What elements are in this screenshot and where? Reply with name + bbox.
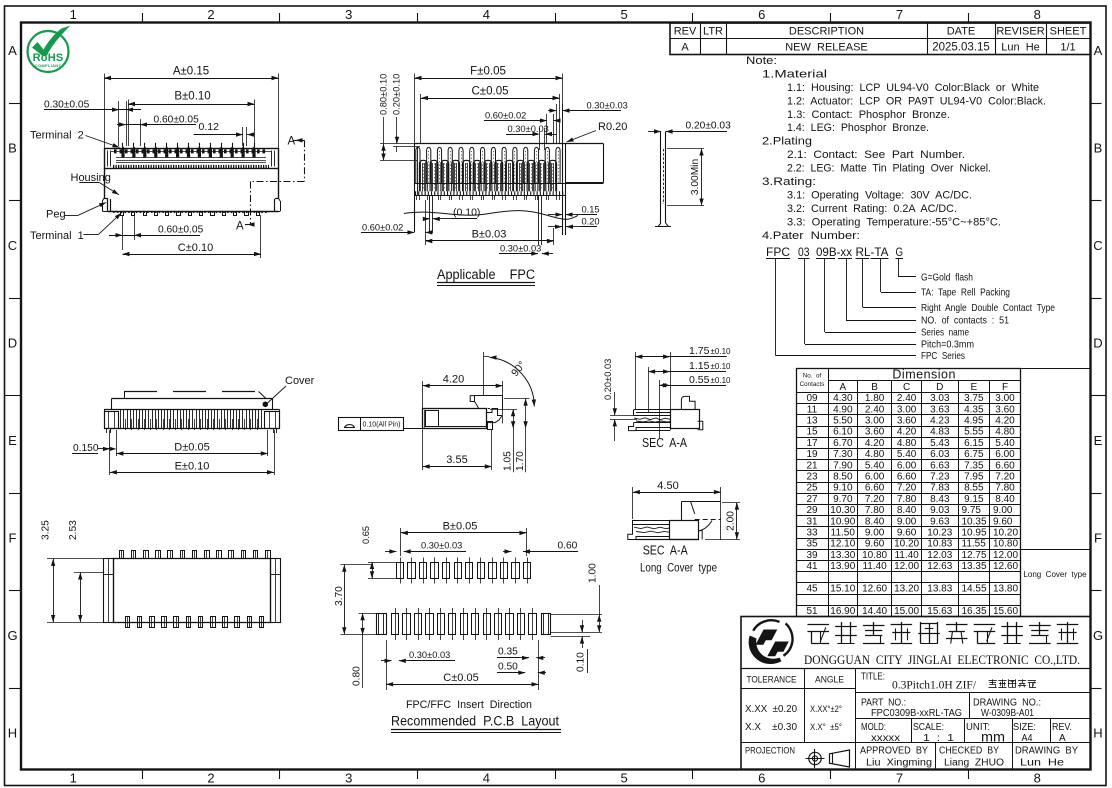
svg-text:3.55: 3.55: [446, 454, 467, 466]
svg-text:B±0.05: B±0.05: [443, 521, 478, 533]
svg-text:2.53: 2.53: [68, 520, 79, 540]
svg-text:D: D: [1093, 336, 1102, 351]
svg-text:9.60: 9.60: [993, 516, 1013, 527]
svg-text:15: 15: [806, 427, 818, 438]
svg-text:B: B: [8, 141, 17, 156]
svg-text:LTR: LTR: [703, 26, 723, 38]
svg-text:2: 2: [207, 7, 214, 22]
svg-text:Long Cover type: Long Cover type: [640, 561, 717, 575]
svg-text:10.80: 10.80: [993, 539, 1018, 550]
svg-text:12.63: 12.63: [927, 561, 952, 572]
svg-text:0.60±0.02: 0.60±0.02: [362, 222, 403, 232]
dimension 0.65: [361, 526, 398, 579]
svg-text:6: 6: [758, 7, 765, 22]
svg-text:16.90: 16.90: [830, 606, 855, 617]
svg-text:3.00: 3.00: [865, 416, 885, 427]
svg-text:0.50: 0.50: [498, 661, 518, 672]
svg-text:1.2: Actuator: LCP OR PA9T: 1.2: Actuator: LCP OR PA9T UL94-V0 Color…: [787, 95, 1046, 107]
svg-text:10.90: 10.90: [830, 516, 855, 527]
svg-text:SEC A-A: SEC A-A: [643, 543, 688, 558]
svg-text:A: A: [1094, 43, 1103, 58]
label Peg: [46, 202, 106, 220]
view 2 FPC body: [415, 144, 604, 236]
svg-text:REV: REV: [674, 26, 697, 38]
svg-text:21: 21: [806, 460, 818, 471]
svg-text:G: G: [7, 628, 17, 643]
svg-text:9.63: 9.63: [930, 516, 950, 527]
svg-text:Liang ZHUO: Liang ZHUO: [944, 758, 1004, 769]
svg-text:0.60: 0.60: [558, 540, 578, 551]
svg-text:10.95: 10.95: [962, 528, 987, 539]
svg-text:6.00: 6.00: [995, 449, 1015, 460]
dimension 0.60 pcb: [503, 540, 578, 553]
svg-text:1.Material: 1.Material: [762, 69, 827, 81]
section line A-A view 1: [236, 136, 305, 233]
svg-text:B: B: [871, 382, 878, 393]
svg-text:4.80: 4.80: [897, 438, 917, 449]
dimension 1.75 plus minus 0.10: [635, 345, 731, 430]
dimension 0.10 paren: [423, 207, 481, 222]
pcb layout lower pad row: [377, 608, 551, 640]
company name chinese: [807, 622, 1078, 644]
svg-text:W-0309B-A01: W-0309B-A01: [981, 708, 1034, 719]
svg-text:RL-TA: RL-TA: [856, 247, 889, 259]
svg-text:6.75: 6.75: [964, 449, 984, 460]
svg-text:0.60±0.05: 0.60±0.05: [154, 114, 200, 125]
view 3 cover dashed outline: [112, 392, 273, 410]
svg-text:0.15: 0.15: [582, 204, 600, 214]
dimension 2.53: [68, 520, 104, 622]
svg-text:B±0.03: B±0.03: [472, 229, 507, 241]
dimension D plus minus 0.05: [116, 430, 267, 456]
dimension 0.50: [497, 661, 546, 675]
svg-text:8.40: 8.40: [995, 494, 1015, 505]
svg-text:A: A: [236, 221, 244, 233]
view 4 actuator lever: [470, 396, 503, 409]
svg-text:DONGGUAN CITY JINGLAI ELECT: DONGGUAN CITY JINGLAI ELECTRONIC CO.,LTD…: [804, 653, 1080, 667]
svg-text:8.40: 8.40: [865, 516, 885, 527]
svg-text:09B-xx: 09B-xx: [816, 247, 852, 259]
title block outline: [741, 617, 1091, 770]
svg-text:51: 51: [806, 606, 818, 617]
zone row ticks left/right: [9, 103, 21, 105]
svg-text:1: 1: [70, 771, 77, 786]
svg-text:7.20: 7.20: [995, 472, 1015, 483]
label Recommended PCB Layout: [391, 714, 561, 733]
svg-text:C±0.05: C±0.05: [443, 672, 478, 684]
svg-text:A: A: [1059, 733, 1066, 744]
svg-text:8: 8: [1034, 7, 1041, 22]
svg-text:5.40: 5.40: [865, 460, 885, 471]
svg-text:6.00: 6.00: [897, 460, 917, 471]
svg-text:2.00: 2.00: [726, 511, 737, 531]
svg-text:4.35: 4.35: [964, 404, 984, 415]
view 2 FPC narrow top stubs: [416, 147, 560, 184]
svg-text:2.2: LEG: Matte Tin Platin: 2.2: LEG: Matte Tin Plating Over Nickel.: [787, 163, 991, 175]
svg-text:10.80: 10.80: [862, 550, 887, 561]
svg-text:Lun He: Lun He: [1001, 42, 1040, 54]
svg-text:1.3: Contact: Phosphor Bron: 1.3: Contact: Phosphor Bronze.: [787, 109, 950, 121]
svg-text:2.Plating: 2.Plating: [762, 136, 812, 148]
svg-text:5: 5: [620, 7, 627, 22]
svg-text:F±0.05: F±0.05: [470, 66, 506, 78]
third angle projection symbol: [806, 749, 850, 768]
svg-text:10.20: 10.20: [894, 539, 919, 550]
svg-text:12.75: 12.75: [962, 550, 987, 561]
svg-text:9.60: 9.60: [865, 539, 885, 550]
svg-text:4.20: 4.20: [897, 427, 917, 438]
svg-text:H: H: [1093, 725, 1102, 740]
svg-text:1.1: Housing: LCP UL94-V0: 1.1: Housing: LCP UL94-V0 Color:Black or…: [787, 82, 1039, 94]
svg-text:2.40: 2.40: [865, 404, 885, 415]
svg-text:8.50: 8.50: [833, 472, 853, 483]
bottom left view bottom pins: [126, 617, 264, 628]
dimensions 1.05 and 1.70: [490, 399, 530, 473]
dimension 3.25: [41, 520, 109, 623]
svg-text:3.60: 3.60: [865, 427, 885, 438]
svg-text:0.20±0.03: 0.20±0.03: [686, 120, 732, 131]
dimension 4.50: [633, 480, 721, 540]
svg-text:45: 45: [806, 584, 818, 595]
svg-text:13: 13: [806, 416, 818, 427]
svg-text:mm: mm: [981, 730, 1005, 745]
svg-text:0.12: 0.12: [199, 121, 220, 133]
revision table: [670, 23, 1091, 55]
svg-text:7.23: 7.23: [930, 472, 950, 483]
svg-text:9.60: 9.60: [897, 528, 917, 539]
svg-text:D: D: [8, 336, 17, 351]
svg-text:A: A: [288, 136, 296, 148]
svg-text:7.35: 7.35: [964, 460, 984, 471]
svg-text:G: G: [896, 247, 904, 259]
svg-text:9.15: 9.15: [964, 494, 984, 505]
svg-text:E: E: [1094, 433, 1103, 448]
svg-text:DATE: DATE: [947, 26, 976, 38]
svg-text:9.00: 9.00: [993, 505, 1013, 516]
svg-text:Pitch=0.3mm: Pitch=0.3mm: [921, 339, 974, 351]
svg-text:E: E: [970, 382, 977, 393]
dimension B plus minus 0.03: [425, 200, 554, 245]
dimension 0.30 plus minus 0.03 bottom: [499, 243, 553, 256]
bottom left view body: [104, 559, 281, 623]
svg-text:0.30±0.03: 0.30±0.03: [587, 100, 628, 110]
svg-text:3: 3: [345, 771, 352, 786]
svg-text:29: 29: [806, 505, 818, 516]
svg-text:15.63: 15.63: [927, 606, 952, 617]
dimension C plus minus 0.10: [123, 215, 262, 258]
svg-text:10.20: 10.20: [993, 528, 1018, 539]
dimension 0.12: [194, 121, 255, 146]
svg-text:3.3: Operating Temperature:-: 3.3: Operating Temperature:-55°C~+85°C.: [787, 216, 1001, 228]
svg-text:3: 3: [345, 7, 352, 22]
svg-text:6: 6: [758, 771, 765, 786]
svg-text:0.30±0.03: 0.30±0.03: [409, 650, 450, 660]
svg-text:1.00: 1.00: [588, 563, 599, 583]
svg-text:D: D: [936, 382, 943, 393]
svg-text:13.90: 13.90: [830, 561, 855, 572]
svg-text:X.XX°±2°: X.XX°±2°: [810, 704, 842, 715]
svg-text:TA: Tape Rell Packing: TA: Tape Rell Packing: [921, 287, 1010, 299]
svg-text:X.XX ±0.20: X.XX ±0.20: [745, 703, 797, 715]
dimension 0.10 pcb: [551, 620, 590, 673]
view 4 right latch: [487, 409, 502, 430]
svg-text:A: A: [681, 42, 689, 54]
svg-text:C: C: [1093, 238, 1102, 253]
svg-text:14.40: 14.40: [862, 606, 887, 617]
svg-text:7.80: 7.80: [897, 494, 917, 505]
svg-text:13.83: 13.83: [927, 584, 952, 595]
svg-text:39: 39: [806, 550, 818, 561]
svg-text:5.40: 5.40: [995, 438, 1015, 449]
svg-text:0.20±0.03: 0.20±0.03: [603, 359, 613, 400]
dimension 3.00Min: [667, 149, 704, 206]
dimension C plus minus 0.05 view2: [421, 86, 560, 144]
svg-text:6.70: 6.70: [833, 438, 853, 449]
view 3 bottom feet: [107, 429, 277, 433]
svg-text:12.00: 12.00: [894, 561, 919, 572]
svg-text:0.10: 0.10: [576, 652, 587, 672]
svg-text:X.X° ±5°: X.X° ±5°: [810, 722, 842, 733]
svg-text:3.00: 3.00: [897, 404, 917, 415]
svg-text:0.30±0.03: 0.30±0.03: [500, 243, 541, 253]
svg-text:Lun He: Lun He: [1020, 758, 1065, 769]
svg-text:41: 41: [806, 561, 818, 572]
svg-text:0.60±0.05: 0.60±0.05: [158, 225, 204, 236]
svg-text:DRAWING BY: DRAWING BY: [1015, 746, 1078, 757]
svg-text:REVISER: REVISER: [996, 26, 1044, 38]
svg-text:Dimension: Dimension: [892, 367, 956, 381]
svg-text:9.10: 9.10: [833, 483, 853, 494]
svg-text:Contacts: Contacts: [800, 381, 825, 388]
title cell: [861, 672, 1036, 692]
svg-text:1.80: 1.80: [865, 393, 885, 404]
svg-text:2025.03.15: 2025.03.15: [932, 42, 990, 54]
svg-text:PROJECTION: PROJECTION: [745, 746, 795, 757]
dimension 0.30 plus minus 0.05: [44, 100, 141, 147]
label Terminal 1: [30, 213, 121, 242]
svg-text:0.20: 0.20: [582, 216, 600, 226]
svg-text:REV.: REV.: [1052, 722, 1072, 733]
svg-text:3.60: 3.60: [995, 404, 1015, 415]
svg-text:E: E: [8, 433, 17, 448]
svg-text:0.20±0.10: 0.20±0.10: [392, 74, 402, 115]
svg-text:C±0.05: C±0.05: [472, 86, 509, 98]
dimension 0.20 plus minus 0.03 section: [603, 359, 648, 441]
svg-text:0.80±0.10: 0.80±0.10: [379, 74, 389, 115]
svg-text:7.95: 7.95: [964, 472, 984, 483]
svg-text:6.60: 6.60: [897, 472, 917, 483]
svg-text:Applicable FPC: Applicable FPC: [437, 267, 535, 282]
view 3 housing and comb: [104, 410, 280, 429]
svg-text:2.40: 2.40: [897, 393, 917, 404]
svg-text:3.00: 3.00: [995, 393, 1015, 404]
svg-text:Series name: Series name: [921, 327, 969, 339]
dimension B plus minus 0.10: [128, 91, 255, 147]
tolerance and angle cells: [745, 675, 844, 757]
dimension 0.30 plus minus 0.03 pcb upper: [385, 540, 466, 553]
svg-text:31: 31: [806, 516, 818, 527]
svg-text:0.30±0.05: 0.30±0.05: [44, 100, 90, 111]
svg-text:3.03: 3.03: [930, 393, 950, 404]
dimension 4.20: [423, 373, 503, 423]
svg-text:9.03: 9.03: [930, 505, 950, 516]
svg-text:6.03: 6.03: [930, 449, 950, 460]
dimension 0.150: [72, 430, 117, 475]
svg-text:1.75: 1.75: [689, 345, 710, 357]
view 1 terminal pins row: [121, 143, 255, 158]
svg-text:10.23: 10.23: [927, 528, 952, 539]
svg-text:3.Rating:: 3.Rating:: [762, 176, 816, 188]
dimension 2.00: [705, 503, 740, 540]
svg-text:09: 09: [806, 393, 818, 404]
bottom left view top pins: [120, 551, 271, 559]
svg-text:6.00: 6.00: [865, 472, 885, 483]
svg-text:10.35: 10.35: [962, 516, 987, 527]
svg-text:15.00: 15.00: [894, 606, 919, 617]
svg-text:NEW RELEASE: NEW RELEASE: [785, 42, 868, 54]
svg-text:4.20: 4.20: [443, 373, 464, 385]
view 2 lower tail lines: [430, 196, 542, 245]
svg-text:9.70: 9.70: [833, 494, 853, 505]
svg-text:Right Angle Double Contact: Right Angle Double Contact Type: [921, 302, 1055, 314]
svg-text:7: 7: [896, 7, 903, 22]
svg-text:8.40: 8.40: [897, 505, 917, 516]
svg-text:3.2: Current Rating: 0.2A: 3.2: Current Rating: 0.2A AC/DC.: [787, 203, 957, 215]
svg-text:1: 1: [70, 7, 77, 22]
svg-text:0.30±0.03: 0.30±0.03: [421, 540, 462, 550]
svg-text:9.00: 9.00: [865, 528, 885, 539]
svg-text:3.63: 3.63: [930, 404, 950, 415]
svg-text:11.40: 11.40: [862, 561, 887, 572]
svg-text:4.Pater Number:: 4.Pater Number:: [762, 230, 860, 242]
svg-text:5.43: 5.43: [930, 438, 950, 449]
svg-text:7.80: 7.80: [995, 483, 1015, 494]
svg-text:SEC A-A: SEC A-A: [642, 435, 687, 450]
view 2 FPC wide contact fingers: [419, 160, 556, 191]
svg-text:4.30: 4.30: [833, 393, 853, 404]
section A-A view body: [629, 396, 703, 430]
svg-text:SHEET: SHEET: [1050, 26, 1087, 38]
svg-text:27: 27: [806, 494, 818, 505]
svg-text:5.50: 5.50: [833, 416, 853, 427]
svg-text:10.30: 10.30: [830, 505, 855, 516]
svg-text:7.20: 7.20: [897, 483, 917, 494]
svg-text:F: F: [1002, 382, 1008, 393]
svg-text:4: 4: [483, 7, 490, 22]
svg-text:Note:: Note:: [746, 55, 777, 67]
svg-text:FPC/FFC Insert Direction: FPC/FFC Insert Direction: [406, 699, 532, 711]
dimension F plus minus 0.05: [415, 66, 563, 144]
view 2 FPC bottom tick band: [415, 193, 565, 200]
svg-text:MOLD:: MOLD:: [861, 722, 886, 733]
svg-text:12.60: 12.60: [993, 561, 1018, 572]
svg-text:2.1: Contact: See Part Num: 2.1: Contact: See Part Number.: [787, 149, 965, 161]
svg-text:6.15: 6.15: [964, 438, 984, 449]
dimension 0.80 plus minus 0.10: [379, 74, 418, 161]
svg-text:7.20: 7.20: [865, 494, 885, 505]
svg-text:3.70: 3.70: [334, 586, 345, 606]
svg-text:6.60: 6.60: [865, 483, 885, 494]
svg-text:COMPLIANT: COMPLIANT: [35, 63, 62, 68]
svg-text:3.75: 3.75: [964, 393, 984, 404]
dimension 0.60 plus minus 0.02 lower left: [361, 222, 433, 234]
svg-text:(0.10): (0.10): [453, 207, 480, 219]
dimension 0.60 plus minus 0.02 upper: [484, 110, 561, 144]
dimension 0.55 plus minus 0.10: [659, 374, 731, 438]
label SEC A-A long cover: [640, 543, 717, 575]
FPC edge view strip: [655, 132, 671, 227]
svg-text:0.10(All Pin): 0.10(All Pin): [363, 420, 401, 429]
svg-text:0.30±0.03: 0.30±0.03: [508, 124, 549, 134]
svg-text:E±0.10: E±0.10: [175, 460, 210, 472]
label Applicable FPC: [437, 267, 535, 286]
pcb layout upper pad row: [397, 558, 531, 584]
svg-text:0.55: 0.55: [689, 374, 710, 386]
svg-text:1.05: 1.05: [503, 451, 514, 471]
svg-text:12.00: 12.00: [993, 550, 1018, 561]
mold scale unit size rev cells: [861, 722, 1072, 745]
svg-text:12.60: 12.60: [862, 584, 887, 595]
label Cover with dot: [263, 375, 315, 407]
svg-text:1.15: 1.15: [689, 360, 710, 372]
svg-text:15.60: 15.60: [993, 606, 1018, 617]
svg-text:DESCRIPTION: DESCRIPTION: [789, 26, 864, 38]
svg-text:DRAWING NO.:: DRAWING NO.:: [973, 698, 1041, 709]
dimension A plus minus 0.15: [104, 66, 279, 149]
dimension 0.20: [548, 216, 600, 229]
svg-text:0.3Pitch1.0H ZIF/: 0.3Pitch1.0H ZIF/: [892, 680, 977, 692]
svg-text:4.23: 4.23: [930, 416, 950, 427]
notes text block: [746, 55, 1046, 242]
dimension 3.55: [423, 430, 492, 471]
part number callout leader lines: [776, 259, 1056, 363]
svg-text:11: 11: [807, 404, 818, 415]
dimension table: [796, 367, 1021, 617]
svg-text:14.55: 14.55: [962, 584, 987, 595]
svg-text:10.83: 10.83: [927, 539, 952, 550]
dimension 0.60 plus minus 0.05 upper: [117, 114, 199, 146]
dimension 0.35: [497, 647, 545, 661]
dimension 1.00: [551, 563, 602, 633]
svg-text:4.50: 4.50: [657, 480, 678, 492]
svg-text:13.80: 13.80: [993, 584, 1018, 595]
svg-text:4.80: 4.80: [995, 427, 1015, 438]
svg-text:13.20: 13.20: [894, 584, 919, 595]
svg-text:SIZE:: SIZE:: [1013, 722, 1036, 733]
dimension 0.20 plus minus 0.03 edge view: [648, 120, 731, 133]
svg-text:3.1: Operating Voltage: 30V: 3.1: Operating Voltage: 30V AC/DC.: [787, 190, 972, 202]
svg-text:0.65: 0.65: [361, 526, 371, 544]
svg-text:NO. of contacts : 51: NO. of contacts : 51: [921, 315, 1009, 327]
svg-text:FPC0309B-xxRL-TAG: FPC0309B-xxRL-TAG: [871, 708, 962, 719]
dimension 0.30 plus minus 0.03 pcb lower: [381, 650, 455, 663]
section A-A long cover body: [628, 501, 721, 539]
svg-text:ANGLE: ANGLE: [815, 675, 844, 686]
svg-text:13.30: 13.30: [830, 550, 855, 561]
label Housing: [71, 172, 120, 195]
long cover type note box: [1021, 369, 1091, 580]
svg-text:4: 4: [483, 771, 490, 786]
svg-text:0.60±0.02: 0.60±0.02: [485, 110, 526, 120]
svg-text:4.90: 4.90: [833, 404, 853, 415]
svg-text:C: C: [8, 238, 17, 253]
part no and drawing no cells: [861, 698, 1041, 720]
svg-text:Recommended P.C.B Layout: Recommended P.C.B Layout: [391, 714, 559, 729]
svg-text:03: 03: [798, 247, 810, 259]
svg-text:Cover: Cover: [285, 375, 315, 387]
svg-text:11.50: 11.50: [831, 528, 856, 539]
svg-text:No. of: No. of: [803, 373, 822, 380]
